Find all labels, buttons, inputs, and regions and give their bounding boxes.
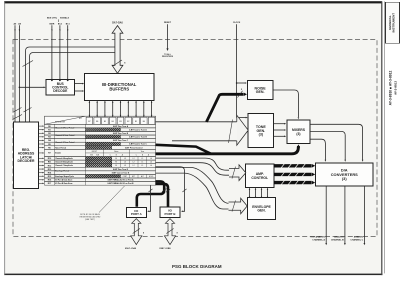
svg-text:IOB7–IOB0: IOB7–IOB0 [159,248,171,250]
svg-text:L1: L1 [141,158,143,160]
funnel arrow into TONE GEN: upper edge [156,121,237,123]
svg-text:INSTRUMENT: INSTRUMENT [392,13,396,33]
svg-text:Enable: Enable [55,153,61,155]
svg-text:AY-3-8913: AY-3-8913 [394,81,398,95]
register row R1 [45,128,156,132]
pin BC2 [58,23,63,80]
svg-text:(SEE TEXT): (SEE TEXT) [85,219,95,221]
svg-text:(3): (3) [342,176,347,181]
svg-text:R6: R6 [48,147,50,149]
register row R13 Envelope Period [45,167,156,172]
svg-text:L3: L3 [124,162,126,164]
wire: TONE GEN to MIXERS at y=136.3 [274,136,287,138]
slash marker on amp funnel [232,167,236,179]
wire: tap into bus control decode left [19,87,46,89]
pin analog CHANNEL C [350,186,365,245]
wire: data taps to reg address latch (lower) [30,53,115,123]
funnel arrow into TONE GEN: lower edge [172,140,237,142]
bit header box B3 [117,117,124,124]
register row R10 Channel A Amplitude [45,157,156,161]
pin analog CHANNEL B [331,186,346,245]
svg-text:5-BIT Period Control: 5-BIT Period Control [125,146,143,149]
svg-text:L2: L2 [133,158,135,160]
box U1: BUS CONTROL DECODE [46,80,75,96]
register row R0 Channel A Tone Period [45,124,156,129]
svg-text:PORT A: PORT A [131,212,143,216]
svg-text:8-BIT Fine Tune B: 8-BIT Fine Tune B [113,133,129,135]
svg-text:IN/OUT: IN/OUT [92,151,97,153]
junction dots on bus control decode top [51,79,69,81]
wire: envelope data S-curve 1 [156,167,231,203]
thick bus: enables to MIXERS [156,146,299,154]
bus width slash on port B read line [182,189,186,192]
register row R11 Channel B Amplitude [45,160,156,164]
bit header box B5 [102,117,109,124]
funnel arrow into ENVELOPE GEN [229,198,248,214]
svg-text:B0: B0 [143,121,145,123]
wire: TONE GEN to MIXERS at y=130.0 [274,129,287,131]
svg-text:8: 8 [177,233,178,235]
pin IOB7-IOB0 (bidirectional arrow) [159,219,177,250]
register row R2 Channel B Tone Period [45,131,156,136]
wire: data bit line 4 buffers-register array [120,100,122,117]
svg-text:B: B [116,154,117,156]
register row R16 I/O Port A Data Store [45,178,156,182]
svg-text:IOB: IOB [90,154,93,156]
svg-text:I/O Port A Data Store: I/O Port A Data Store [55,179,72,182]
thick bus: reg array to I/O PORT B [156,184,169,207]
svg-text:Channel A Amplitude: Channel A Amplitude [55,157,73,160]
svg-text:Noise: Noise [114,151,118,153]
svg-text:B4: B4 [112,121,114,123]
wire: port B read line [156,167,185,212]
slash marker 5 on noise bus [238,91,243,98]
pin IOA7-IOA0 (bidirectional arrow) [125,219,144,250]
svg-text:DECODER: DECODER [18,159,36,163]
thick bus: register data bar (merges into mixer bus) [156,145,212,154]
svg-text:8-BIT Coarse Tune E: 8-BIT Coarse Tune E [112,172,130,174]
svg-text:B2: B2 [127,121,129,123]
wire: data bit line 2 buffers-register array [104,100,106,117]
wire: envelope data S-curve 2 [156,173,231,209]
svg-text:R17: R17 [48,183,51,185]
wire: data bit line 8 buffers-register array [151,100,153,117]
wire: data bit line 5 buffers-register array [127,100,129,117]
pin RESET [162,22,174,58]
svg-text:B7: B7 [88,121,90,123]
svg-text:Envelope Shape/Cycle: Envelope Shape/Cycle [55,176,74,178]
svg-text:BUFFERS: BUFFERS [109,87,129,92]
wires: reg address latch to register array rows [39,125,45,184]
wire: data taps to reg address latch (upper) [26,47,115,122]
pin A8 [18,22,22,122]
bus width slash on A9/A8 pair [13,115,23,120]
svg-text:DA7–DA0: DA7–DA0 [112,22,123,25]
svg-text:CONT: CONT [123,176,127,178]
svg-text:L3: L3 [124,165,126,167]
wire: ENVELOPE GEN to AMP CONTROL at x=255.5 [255,188,257,198]
box U4: NOISE GEN [247,80,272,99]
bit header box B7 [86,117,93,124]
bracket label BUS CTRL SIGNALS [47,17,70,22]
svg-text:GEN.: GEN. [256,90,265,94]
register array table [45,100,156,185]
svg-text:RESET: RESET [164,22,172,24]
svg-text:R15: R15 [48,176,51,178]
wire: NOISE GEN to MIXERS [273,90,299,117]
wire: MIXERS to D/A ch C [310,124,363,161]
bus width slash on port A read line [149,189,153,192]
slash marker on envelope funnel [232,200,236,211]
svg-text:R1: R1 [48,129,50,131]
svg-text:TEST 1: TEST 1 [310,237,318,239]
box U6: MIXERS (3) [287,120,310,144]
svg-text:I/O Port B Data Store: I/O Port B Data Store [55,182,72,185]
bit header box x [148,117,155,124]
svg-text:BUS CTRL: BUS CTRL [47,18,58,20]
pin BC1 [66,23,71,80]
svg-text:BIT: BIT [79,118,82,120]
svg-text:R0: R0 [48,126,50,128]
svg-text:L0: L0 [150,158,152,160]
svg-text:PORT B: PORT B [165,212,176,216]
svg-text:L3: L3 [124,158,126,160]
wire: port A read line [147,185,150,212]
page bottom border [4,274,383,276]
svg-text:AY-3-8910 ■ AY-3-8912: AY-3-8910 ■ AY-3-8912 [389,71,393,106]
svg-text:4-BIT Coarse Tune C: 4-BIT Coarse Tune C [129,143,147,146]
svg-text:B6: B6 [96,121,98,123]
thick bus: AMP CONTROL to D/A converters #3 [274,180,315,184]
wire: data bit line 0 buffers-register array [88,100,90,117]
register row R12 Channel C Amplitude [45,164,156,168]
svg-text:Noise Period: Noise Period [55,147,66,149]
svg-text:(3): (3) [296,132,300,136]
svg-text:Channel B Amplitude: Channel B Amplitude [55,161,73,164]
svg-text:R5: R5 [48,144,50,146]
wire: data bit line 1 buffers-register array [96,100,98,117]
page left border [3,1,6,275]
svg-text:PSG BLOCK DIAGRAM: PSG BLOCK DIAGRAM [172,264,222,269]
bus width slashes at latch inputs [14,108,22,113]
wire: bus control decode to buffers (lower) [75,90,85,92]
wire: MIXERS to D/A ch A [310,139,326,162]
page top border [4,1,382,3]
svg-text:L2: L2 [133,165,135,167]
svg-text:Channel A Tone Period: Channel A Tone Period [55,127,74,130]
wire: ENVELOPE GEN to AMP CONTROL at x=249.5 [249,188,251,198]
wire: clock to tone gen [237,117,248,119]
pin DA7-DA0 (bidirectional open arrow) [112,22,126,74]
wire: clock to noise gen [236,82,247,84]
svg-text:R2: R2 [48,133,50,135]
svg-text:L0: L0 [150,165,152,167]
thick bus: AMP CONTROL to D/A converters #1 [274,164,315,168]
register row R3 [45,135,156,139]
side tab logo box: GENERAL INSTRUMENT [386,2,400,43]
svg-text:CONTROL: CONTROL [251,176,268,180]
wire: data bit line 7 buffers-register array [143,100,145,117]
svg-text:CHANNEL B: CHANNEL B [331,238,344,241]
bit header box B2 [125,117,132,124]
svg-text:R10: R10 [48,158,51,160]
bit header box B1 [133,117,140,124]
svg-text:CHANNEL C: CHANNEL C [350,238,363,241]
svg-text:ANALOG: ANALOG [354,236,364,239]
box U11: I/O PORT B [160,207,180,218]
pin A9 [13,22,17,122]
svg-text:Tone: Tone [141,151,145,153]
svg-text:R13: R13 [48,169,51,171]
wire: data bit line 6 buffers-register array [135,100,137,117]
svg-text:GEN.: GEN. [257,209,265,213]
svg-text:B: B [142,154,143,156]
svg-text:8-BIT Fine Tune E: 8-BIT Fine Tune E [113,169,129,171]
side tab part numbers AY-3-8910 / AY-3-8912 [389,71,393,106]
box U5: TONE GEN (3) [248,114,273,148]
box U9: D/A CONVERTERS (3) [316,163,374,186]
svg-text:REGISTER: REGISTER [55,121,66,123]
svg-text:8: 8 [143,233,144,235]
wire: ENVELOPE GEN to AMP CONTROL at x=261.5 [261,188,263,198]
annotation note with callout [80,186,125,221]
svg-text:R11: R11 [48,162,51,164]
box U2: BI-DIRECTIONAL BUFFERS [85,74,155,101]
chip boundary (dashed) [13,40,377,237]
slash marker on tone funnel head [229,120,233,144]
svg-text:8-BIT PARALLEL I/O on Port B: 8-BIT PARALLEL I/O on Port B [108,182,135,185]
svg-text:REGISTERS: REGISTERS [162,56,174,58]
wire: TONE GEN to MIXERS at y=123.7 [274,123,287,125]
box U8: ENVELOPE GEN [248,197,276,219]
wire: ENVELOPE GEN to AMP CONTROL at x=267.5 [267,188,269,198]
svg-text:Channel C Amplitude: Channel C Amplitude [55,164,73,167]
svg-text:4-BIT Coarse Tune B: 4-BIT Coarse Tune B [129,136,147,139]
register row R15 Envelope Shape/Cycle [45,174,156,178]
svg-text:R7: R7 [48,153,50,155]
svg-text:ANALOG: ANALOG [334,236,344,239]
svg-text:L2: L2 [133,162,135,164]
svg-text:IOA7–IOA0: IOA7–IOA0 [125,247,137,250]
thick bus: AMP CONTROL to D/A converters #2 [274,172,315,176]
box U7: AMP CONTROL [246,164,275,188]
svg-text:BDIR: BDIR [49,23,54,25]
bit header box B0 [141,117,148,124]
svg-text:L1: L1 [141,162,143,164]
svg-text:CHANNEL A: CHANNEL A [312,238,325,241]
pin CLOCK [233,22,241,117]
wire: amplitude data S-curve 2 [156,163,230,176]
bus width slash on data taps [23,61,34,67]
register row R7 Enable [45,149,156,156]
register row R5 [45,142,156,146]
svg-text:L1: L1 [141,165,143,167]
svg-text:R12: R12 [48,165,51,167]
wire: amplitude data S-curve 1 [156,158,230,170]
pin analog CHANNEL A [312,186,327,245]
side tab part number AY-3-8913 [394,81,398,95]
svg-text:B5: B5 [104,121,106,123]
svg-text:R16: R16 [48,180,51,182]
svg-text:ANALOG: ANALOG [316,236,326,239]
svg-text:DECODE: DECODE [53,89,68,93]
svg-text:8-BIT Fine Tune A: 8-BIT Fine Tune A [113,125,129,128]
page right border [381,1,382,275]
side tab separator line [383,1,386,273]
bit header box B6 [94,117,101,124]
svg-text:L0: L0 [150,162,152,164]
bus width slash on port A bus [162,189,166,192]
register row R14 [45,171,156,175]
svg-text:8-BIT PARALLEL I/O on Port A: 8-BIT PARALLEL I/O on Port A [108,179,135,182]
svg-text:SIGNALS: SIGNALS [60,17,70,20]
register row R4 Channel C Tone Period [45,139,156,144]
wire: data bit line 3 buffers-register array [112,100,114,117]
svg-text:R3: R3 [48,137,50,139]
register row R6 Noise Period [45,146,156,150]
thick bus: reg array to I/O PORT A [137,181,164,206]
bus width slash on port B bus [166,189,170,192]
pin BDIR [49,23,54,80]
register row R17 I/O Port B Data Store [45,182,156,186]
bit header box B4 [109,117,116,124]
funnel arrow into TONE GEN: head [237,115,248,145]
svg-text:B1: B1 [135,121,137,123]
svg-text:B3: B3 [119,121,121,123]
funnel arrow into AMP CONTROL [229,165,246,181]
thick bus: noise period to NOISE GEN [207,94,244,122]
svg-text:8-BIT Fine Tune C: 8-BIT Fine Tune C [113,140,129,142]
svg-text:CLOCK: CLOCK [233,22,241,24]
wire: bus control decode to buffers (upper) [75,83,85,85]
svg-text:4-BIT Coarse Tune A: 4-BIT Coarse Tune A [129,128,147,131]
box U10: I/O PORT A [126,208,146,218]
box U3: REG ADDRESS LATCH/DECODER [14,122,39,189]
wire: MIXERS to D/A ch B [310,131,346,161]
